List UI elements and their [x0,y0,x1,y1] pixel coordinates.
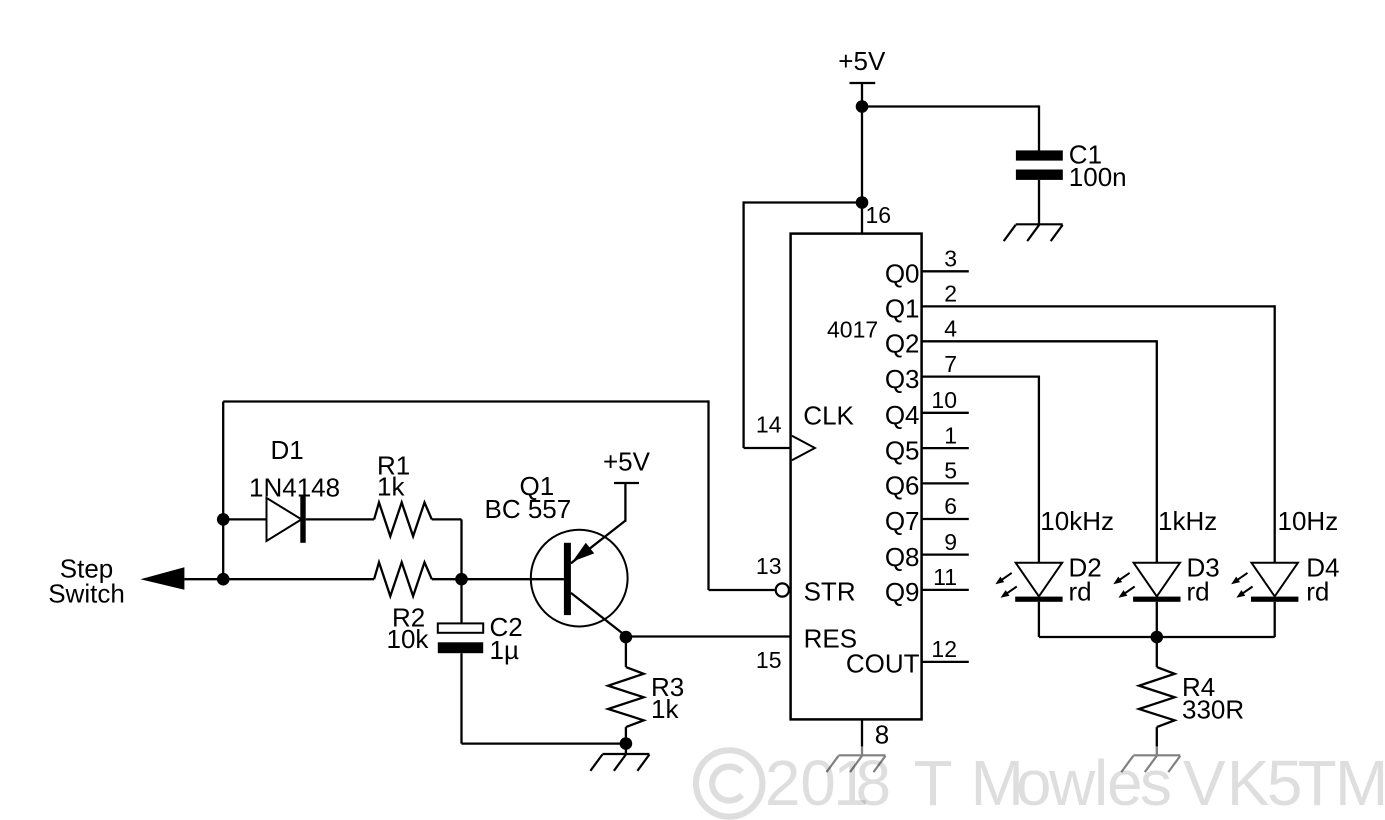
op IC U1 4017 body [791,234,922,720]
LED D2 [995,563,1062,637]
svg-text:Switch: Switch [48,578,125,608]
capacitor C2 plates [438,623,483,653]
svg-text:Q4: Q4 [885,400,920,430]
svg-text:10: 10 [931,387,957,413]
svg-text:D1: D1 [271,435,304,465]
resistor R2 [374,562,432,596]
pin number 9 [944,529,957,555]
label RES [804,623,857,653]
svg-text:1: 1 [944,422,957,448]
wire C2 top lead [460,579,462,623]
svg-text:Q3: Q3 [885,364,920,394]
transistor Q1 emitter arrow (PNP) [573,543,595,562]
wire C1 bottom lead [1038,180,1040,224]
svg-text:1k: 1k [377,471,405,501]
pin number 5 [944,458,957,484]
label Q5 [885,435,920,465]
wire CLK net into pin 14 [744,447,791,449]
svg-text:COUT: COUT [846,649,920,679]
label Q6 [885,471,920,501]
svg-text:STR: STR [804,577,856,607]
svg-text:Mowles: Mowles [971,747,1172,819]
wire +5V rail vertical to IC pin 16 [861,83,863,234]
node junction dot riser/step row [217,573,230,586]
capacitor C1 plates [1016,150,1063,180]
svg-text:Q0: Q0 [885,259,920,289]
svg-text:Q7: Q7 [885,506,920,536]
label BC 557 [485,494,572,524]
label Q4 [885,400,920,430]
wire STR net vertical [707,400,709,590]
label R1 1k [377,451,410,502]
svg-text:Q1: Q1 [885,294,920,324]
label 1kHz [1158,506,1217,536]
resistor R4 [1139,667,1175,727]
pin stub Q6 [922,482,969,484]
arrow step switch input [140,567,184,589]
wire Q1 output to D4 (10Hz) [922,305,1275,307]
node junction dot bus/R4 [1151,631,1164,644]
resistor R1 [374,503,432,537]
svg-text:+5V: +5V [603,447,651,477]
ground (below IC pin 8) [827,755,886,772]
pin number 13 [756,553,782,579]
svg-text:4: 4 [944,316,957,342]
label Q7 [885,506,920,536]
label 10kHz [1040,506,1114,536]
svg-text:BC 557: BC 557 [485,494,572,524]
label Q1 [885,294,920,324]
pin stub Q9 [922,589,969,591]
pin number 8 [875,719,889,749]
label CLK [803,400,854,430]
label COUT [846,649,920,679]
clock edge triangle on CLK pin [792,436,815,460]
wire R3 dot to ground [625,744,627,754]
label D1 [271,435,304,465]
svg-text:10k: 10k [387,624,430,654]
svg-text:1kHz: 1kHz [1158,506,1217,536]
svg-text:Q8: Q8 [885,542,920,572]
svg-text:9: 9 [944,529,957,555]
svg-text:13: 13 [756,553,782,579]
svg-text:11: 11 [933,564,957,590]
svg-text:2: 2 [944,281,957,307]
LED D3 [1113,563,1180,637]
wire R3 bottom lead [625,727,627,744]
svg-text:+5V: +5V [838,46,886,76]
pin number 1 [944,422,957,448]
svg-text:10Hz: 10Hz [1278,506,1339,536]
wire R4 bottom lead [1156,727,1158,755]
wire step switch row [184,578,374,580]
pin stub Q4 [922,412,969,414]
label STR [804,577,856,607]
label D2 rd [1069,553,1102,607]
pin number 2 [944,281,957,307]
svg-text:rd: rd [1187,577,1210,607]
label R2 10k [387,603,430,654]
svg-text:100n: 100n [1069,162,1127,192]
svg-text:T: T [914,747,953,819]
pin number 14 [756,411,782,437]
svg-text:Q6: Q6 [885,471,920,501]
label Q9 [885,577,920,607]
label R4 330R [1182,672,1244,724]
pin number 15 [756,647,782,673]
resistor R3 [608,667,644,727]
pin number 12 [931,636,957,662]
svg-text:Q9: Q9 [885,577,920,607]
wire R2 to Q1 base [432,578,564,580]
svg-text:12: 12 [931,636,957,662]
label D4 rd [1306,553,1339,607]
power +5V supply symbol (Q1 emitter) [603,447,651,483]
wire RES net (collector to pin 15) [626,635,791,637]
watermark copyright symbol [696,750,762,816]
watermark overlay band [688,746,1385,820]
label Step Switch [48,553,125,608]
label Q3 [885,364,920,394]
label D3 rd [1187,553,1220,607]
wire D1 to R1 [306,518,374,520]
svg-text:VK5TM: VK5TM [1183,747,1385,819]
node junction dot riser/D1 [217,513,230,526]
wire emitter to +5V [624,483,626,522]
pin number 11 [933,564,957,590]
wire D3 anode drop [1156,340,1158,563]
pin number 10 [931,387,957,413]
wire left riser [222,402,224,580]
pin number 3 [944,246,957,272]
transistor Q1 collector line [571,593,626,636]
label Q2 [885,329,920,359]
wire +5V to C1 [862,105,1039,107]
wire Q2 output to D3 (1kHz) [922,340,1157,342]
wire CLK net vertical [742,201,744,448]
svg-text:7: 7 [944,351,957,377]
ground (below R4) [1121,755,1180,772]
power +5V supply symbol (top) [838,46,886,83]
svg-text:6: 6 [944,493,957,519]
svg-text:1N4148: 1N4148 [249,473,340,503]
diode D1 [267,497,306,543]
wire STR net top horizontal [223,400,708,402]
svg-text:10kHz: 10kHz [1040,506,1114,536]
svg-text:8: 8 [875,719,889,749]
svg-text:15: 15 [756,647,782,673]
wire Q3 output to D2 (10kHz) [922,375,1039,377]
wire C1 top lead [1038,105,1040,150]
wire C2 bottom lead [460,653,462,743]
ground (below C1) [1004,224,1063,241]
svg-text:14: 14 [756,411,782,437]
pin stub Q0 [922,270,969,272]
svg-text:16: 16 [866,202,892,228]
svg-text:1µ: 1µ [490,635,519,665]
wire D2 anode drop [1038,376,1040,563]
wire R4 top lead [1156,637,1158,667]
label R3 1k [651,672,684,724]
wire D4 anode drop [1274,305,1276,563]
svg-text:2018: 2018 [765,747,891,819]
svg-text:Q2: Q2 [885,329,920,359]
node junction dot R1/R2/C2/base [455,573,468,586]
svg-text:5: 5 [944,458,957,484]
LED D4 [1231,563,1298,637]
svg-text:Q5: Q5 [885,435,920,465]
node junction dot R3/bottom rail [620,737,633,750]
pin stub COUT [922,661,969,663]
node junction dot pin16/CLK net [856,196,869,209]
label 10Hz [1278,506,1339,536]
pin number 7 [944,351,957,377]
wire D1 anode lead [223,518,266,520]
node junction dot collector/RES/R3 [620,631,633,644]
node junction dot +5V/C1 [856,100,869,113]
wire R1 to corner [432,519,462,579]
wire bottom rail C2 to R3 [462,742,626,744]
ground (below R3) [590,754,649,771]
wire IC pin 8 to ground [861,719,863,755]
svg-text:1k: 1k [651,694,679,724]
wire LED cathode bus [1039,636,1275,638]
label C1 100n [1069,140,1127,192]
inverter bubble on STR pin 13 [776,583,789,596]
svg-text:rd: rd [1069,577,1092,607]
transistor Q1 body circle [531,530,628,627]
watermark text [765,747,1385,819]
pin stub Q7 [922,518,969,520]
label 1N4148 [249,473,340,503]
label 4017 [827,317,878,343]
transistor Q1 emitter line [571,521,626,564]
label Q1 [520,471,555,501]
pin stub Q5 [922,447,969,449]
wire STR net into pin 13 [709,589,775,591]
pin number 4 [944,316,957,342]
label Q8 [885,542,920,572]
label C2 1u [490,612,523,665]
svg-text:CLK: CLK [803,400,854,430]
svg-text:330R: 330R [1182,694,1244,724]
wire CLK net horizontal (to +5V node) [744,201,862,203]
svg-text:rd: rd [1306,577,1329,607]
transistor Q1 base bar [564,543,571,615]
pin stub Q8 [922,553,969,555]
label Q0 [885,259,920,289]
pin number 16 [866,202,892,228]
wire R3 top lead [625,637,627,667]
pin number 6 [944,493,957,519]
svg-text:4017: 4017 [827,317,878,343]
svg-text:3: 3 [944,246,957,272]
